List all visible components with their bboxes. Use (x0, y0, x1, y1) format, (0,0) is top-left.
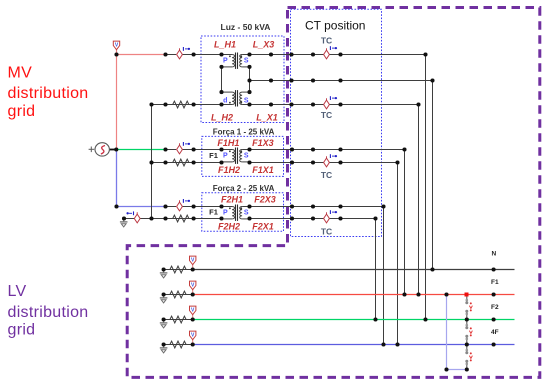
svg-text:P: P (223, 209, 228, 216)
svg-text:F2X1: F2X1 (252, 221, 274, 231)
svg-text:LV: LV (8, 283, 27, 300)
svg-text:TC: TC (321, 110, 332, 120)
svg-text:L_H1: L_H1 (214, 40, 236, 50)
svg-text:grid: grid (8, 103, 36, 120)
svg-text:MV: MV (8, 65, 33, 82)
svg-text:Força 1 - 25 kVA: Força 1 - 25 kVA (213, 128, 275, 137)
svg-text:P: P (223, 152, 228, 159)
svg-text:TC: TC (321, 36, 332, 46)
svg-text:Força 2 - 25 kVA: Força 2 - 25 kVA (213, 184, 275, 193)
svg-text:F2X3: F2X3 (254, 195, 276, 205)
svg-text:F1X1: F1X1 (252, 165, 274, 175)
svg-text:S: S (244, 57, 249, 64)
svg-text:P: P (223, 57, 228, 64)
svg-text:grid: grid (8, 322, 36, 339)
svg-text:F1: F1 (209, 151, 218, 160)
svg-text:TC: TC (321, 170, 332, 180)
svg-text:CT position: CT position (305, 19, 365, 33)
svg-text:F1H1: F1H1 (217, 138, 239, 148)
svg-text:L_X1: L_X1 (256, 113, 278, 123)
svg-text:F2: F2 (491, 304, 499, 311)
svg-text:distribution: distribution (8, 304, 89, 321)
svg-text:S: S (244, 97, 249, 104)
svg-text:S: S (244, 152, 249, 159)
svg-text:L_H2: L_H2 (211, 113, 233, 123)
svg-text:F1: F1 (209, 208, 218, 217)
svg-text:F2H1: F2H1 (221, 195, 243, 205)
svg-text:4F: 4F (491, 329, 499, 336)
svg-text:F1: F1 (491, 279, 499, 286)
svg-text:distribution: distribution (8, 85, 89, 102)
svg-text:N: N (492, 251, 497, 258)
svg-text:F2H2: F2H2 (218, 221, 240, 231)
svg-text:d: d (223, 97, 227, 104)
svg-text:F1X3: F1X3 (252, 138, 274, 148)
svg-text:L_X3: L_X3 (253, 40, 275, 50)
svg-text:F1H2: F1H2 (218, 165, 240, 175)
svg-text:S: S (244, 209, 249, 216)
svg-text:Luz - 50 kVA: Luz - 50 kVA (221, 22, 271, 32)
svg-text:TC: TC (321, 227, 332, 237)
